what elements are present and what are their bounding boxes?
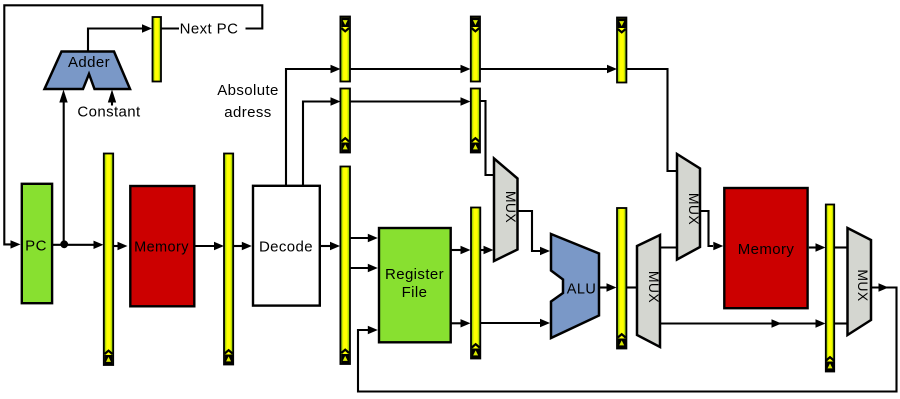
pipeline register MEM <box>617 208 626 349</box>
pipeline register WB <box>826 205 834 372</box>
wire writeback loop (mux M4 out, bottom, to register file write port) <box>358 283 897 391</box>
svg-text:Memory: Memory <box>738 241 795 258</box>
svg-text:PC: PC <box>25 238 47 255</box>
register PC (green box) <box>22 184 52 303</box>
wire IF register to instruction memory <box>113 242 128 250</box>
mux M2 <box>637 235 662 347</box>
wire stage-C register to mux M3 <box>626 69 676 171</box>
pipeline register IF <box>104 154 113 366</box>
wire instruction memory to IF/ID register <box>195 242 224 250</box>
wire PC output to IF register <box>53 241 104 249</box>
memory (data) <box>724 188 807 308</box>
mux M1 <box>494 159 519 262</box>
svg-text:adress: adress <box>224 104 271 121</box>
svg-text:ALU: ALU <box>567 282 596 298</box>
svg-text:Next PC: Next PC <box>180 21 239 38</box>
wire ID/EX register to register file read port 2 <box>351 264 378 272</box>
wire ID/EX register to register file read port 1 <box>351 234 378 242</box>
svg-text:MUX: MUX <box>503 191 519 224</box>
wire EX register to mux M1 <box>480 246 493 254</box>
svg-text:Adder: Adder <box>68 54 110 71</box>
svg-text:File: File <box>402 284 428 301</box>
wire constant input to adder <box>108 90 116 106</box>
pipeline register stage-A lower <box>340 89 350 153</box>
wire register file out 1 to EX register <box>452 246 471 254</box>
register Next PC <box>153 17 162 82</box>
wire IF/ID register to decode <box>233 242 252 250</box>
memory (instruction) <box>130 186 194 306</box>
pipeline register stage-B upper <box>471 17 480 82</box>
wire decode to ID/EX register <box>321 242 340 250</box>
svg-text:MUX: MUX <box>686 193 702 226</box>
wire MEM register to mux M2 <box>626 286 637 288</box>
wire junction up to adder input <box>59 90 67 245</box>
pipeline register EX <box>471 208 480 359</box>
pipeline register IF/ID <box>224 154 233 365</box>
label Absolute adress <box>217 82 279 121</box>
svg-text:MUX: MUX <box>646 271 662 304</box>
wire data memory to WB register <box>809 243 826 251</box>
wire EX register to ALU input B <box>480 319 550 327</box>
wire ALU output to MEM register <box>599 283 617 291</box>
svg-text:Register: Register <box>385 266 444 283</box>
svg-text:Absolute: Absolute <box>217 82 279 99</box>
svg-text:Decode: Decode <box>259 239 313 256</box>
pipeline register ID/EX <box>340 167 350 365</box>
mux M4 <box>848 228 872 335</box>
node junction on PC output <box>60 240 68 248</box>
wire decode absolute address (upper branch) <box>286 65 341 185</box>
wire mux M2 bypass to WB register <box>660 319 826 327</box>
wire next-pc feedback loop (register out, around top, into PC) <box>4 5 262 248</box>
wire register file out 2 to EX register <box>452 319 471 327</box>
ALU <box>551 234 599 338</box>
wire decode absolute address (lower branch) <box>303 97 341 185</box>
svg-text:Constant: Constant <box>77 104 141 121</box>
wire stage-A lower to stage-B lower <box>350 97 471 105</box>
svg-text:MUX: MUX <box>855 269 871 302</box>
wire mux M1 to ALU input A <box>518 211 551 255</box>
pipeline register stage-A upper <box>340 17 350 82</box>
pipeline register stage-C upper <box>617 18 626 83</box>
wire stage-A upper to stage-B upper <box>350 65 471 73</box>
mux M3 <box>677 154 702 260</box>
svg-text:Memory: Memory <box>134 240 189 256</box>
wire WB register to mux M4 lower <box>834 322 848 324</box>
adder U1 <box>45 52 131 90</box>
wire WB register to mux M4 upper <box>834 246 848 248</box>
wire adder output to next-pc register <box>88 24 152 52</box>
decode unit <box>253 186 320 306</box>
wire stage-B lower to mux M1 <box>480 101 494 175</box>
pipeline register stage-B lower <box>471 89 480 153</box>
wire mux M2 to mux M3 <box>660 246 677 248</box>
register file <box>379 228 451 342</box>
wire stage-B upper to stage-C register <box>480 65 617 73</box>
wire mux M3 to data memory <box>700 211 723 250</box>
